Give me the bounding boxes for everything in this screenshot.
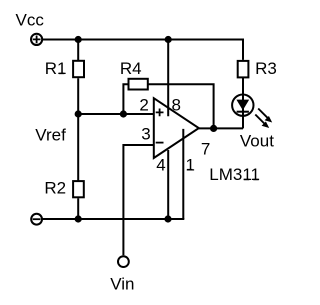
svg-text:R1: R1 <box>45 59 67 78</box>
svg-text:Vcc: Vcc <box>16 11 45 30</box>
svg-text:2: 2 <box>139 96 148 115</box>
svg-text:R2: R2 <box>44 178 66 197</box>
svg-text:Vref: Vref <box>35 125 66 144</box>
svg-text:Vin: Vin <box>110 274 134 293</box>
svg-text:7: 7 <box>201 139 210 158</box>
svg-text:4: 4 <box>156 155 165 174</box>
svg-text:1: 1 <box>186 155 195 174</box>
svg-text:R4: R4 <box>120 59 142 78</box>
svg-text:Vout: Vout <box>240 131 274 150</box>
svg-text:8: 8 <box>172 96 181 115</box>
svg-text:R3: R3 <box>255 59 277 78</box>
svg-text:LM311: LM311 <box>209 165 260 184</box>
svg-text:3: 3 <box>141 125 150 144</box>
